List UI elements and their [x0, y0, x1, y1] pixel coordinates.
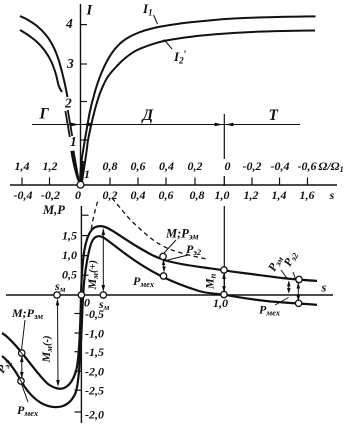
svg-text:0,8: 0,8	[103, 159, 118, 173]
svg-text:Д: Д	[141, 107, 155, 124]
wedge where right-branch curves merge near origin	[80, 161, 84, 184]
curve I1 left branch	[20, 16, 68, 97]
svg-text:0,6: 0,6	[131, 159, 146, 173]
I axis tick 2	[81, 101, 88, 103]
svg-text:0,2: 0,2	[188, 159, 203, 173]
dashed curve P_э2 right branch	[112, 198, 207, 259]
leader P_мех left	[22, 384, 29, 402]
svg-text:0,6: 0,6	[159, 188, 174, 202]
svg-text:-0,2: -0,2	[41, 188, 60, 202]
I axis tick 3	[81, 63, 88, 65]
M tick bottom	[75, 411, 82, 413]
svg-text:1,2: 1,2	[43, 159, 58, 173]
I axis (vertical)	[80, 4, 82, 181]
origin circle	[77, 181, 84, 188]
M tick 0.5	[81, 274, 88, 276]
tick s=1.4	[279, 178, 281, 186]
tick s=0.8	[194, 178, 196, 186]
dimension arrow P_эм right	[287, 281, 291, 294]
tick s=0.4	[137, 178, 139, 186]
svg-text:-0,4: -0,4	[14, 188, 33, 202]
dimension arrow M_м(+)	[102, 228, 106, 292]
arrowhead right at s=1 (Д end)	[215, 123, 223, 127]
svg-text:-1,5: -1,5	[85, 345, 104, 359]
svg-text:4: 4	[65, 16, 73, 31]
svg-text:-0,4: -0,4	[271, 159, 290, 173]
svg-text:1,4: 1,4	[15, 159, 30, 173]
svg-text:M,P: M,P	[42, 203, 65, 217]
M tick -1.0	[75, 332, 82, 334]
svg-text:Т: Т	[269, 107, 279, 124]
svg-text:1,0: 1,0	[62, 248, 77, 262]
svg-text:1: 1	[70, 134, 77, 149]
leader M;P_эм left	[22, 320, 26, 350]
M tick -2.5	[75, 389, 82, 391]
M,P axis (vertical)	[80, 206, 82, 423]
svg-text:1,5: 1,5	[62, 229, 77, 243]
tick s=-0.4	[21, 178, 23, 186]
leader M;P_эм mid	[164, 240, 176, 253]
svg-text:3: 3	[66, 56, 74, 71]
svg-text:-2,5: -2,5	[85, 384, 104, 398]
svg-text:-0,2: -0,2	[243, 159, 262, 173]
curve I2' left branch	[20, 30, 62, 92]
svg-text:1: 1	[84, 167, 90, 181]
M tick -2.0	[75, 370, 82, 372]
BOTTOM PLOT	[0, 198, 333, 423]
leader P_мех right	[275, 298, 289, 306]
curve I2' right branch	[82, 31, 315, 185]
svg-text:Г: Г	[39, 106, 50, 123]
leader P_эм right	[281, 270, 288, 279]
omega scale row	[15, 159, 344, 181]
circle on upper curve mid	[160, 253, 166, 259]
s=1 vertical line (M_п line)	[223, 206, 225, 294]
dimension arrow P_э2 right	[297, 282, 301, 302]
s scale row	[14, 188, 335, 202]
circle s=1 on axis	[221, 291, 227, 297]
svg-text:s: s	[321, 281, 327, 295]
svg-text:0: 0	[84, 296, 90, 310]
s axis (horizontal)	[10, 184, 337, 186]
svg-text:1,4: 1,4	[272, 188, 287, 202]
tick s=1.2	[251, 178, 253, 186]
svg-text:1,0: 1,0	[213, 296, 228, 310]
svg-text:0,2: 0,2	[103, 188, 118, 202]
circle M_п on upper curve	[221, 267, 227, 273]
tick s=0.6	[165, 178, 167, 186]
svg-text:-2,0: -2,0	[85, 365, 104, 379]
svg-text:0: 0	[225, 159, 231, 173]
svg-text:0,8: 0,8	[190, 188, 205, 202]
svg-text:1,2: 1,2	[244, 188, 259, 202]
dimension arrow P_э2 left	[20, 356, 24, 379]
MIDDLE AXIS	[10, 106, 344, 203]
s axis (horizontal, bottom)	[6, 294, 333, 296]
TOP PLOT	[20, 1, 316, 184]
M tick -0.5	[75, 313, 82, 315]
circle on upper curve right	[296, 276, 302, 282]
I axis tick 1	[81, 139, 88, 141]
region boundary line	[32, 124, 300, 126]
svg-text:2: 2	[64, 96, 72, 111]
arrowhead right at axis (Г end)	[71, 123, 79, 127]
M tick 1.5	[81, 235, 88, 237]
svg-text:-1,0: -1,0	[85, 327, 104, 341]
svg-text:0,4: 0,4	[131, 188, 146, 202]
tick s=1.6	[307, 178, 309, 186]
circle on lower curve right	[295, 300, 301, 306]
leader I2'	[164, 40, 172, 50]
I axis tick 4	[81, 24, 88, 26]
circle on lower curve left	[18, 378, 24, 384]
circle s_m(-) on axis	[54, 292, 60, 298]
svg-text:1,6: 1,6	[300, 188, 315, 202]
arrowhead left at axis (Д start)	[83, 123, 91, 127]
circle on lower curve mid	[160, 273, 166, 279]
tick s=-0.2	[49, 178, 51, 186]
curve I1 left steep slash segment	[68, 110, 72, 136]
arrowhead left at s=1 (Т start)	[226, 123, 234, 127]
svg-text:-0,6: -0,6	[298, 159, 317, 173]
circle on upper curve left	[19, 350, 25, 356]
M axis labels positive	[62, 229, 77, 282]
leader P_э2 right	[293, 272, 297, 283]
leader I1	[154, 15, 158, 24]
wedge where left-branch curves merge near origin	[70, 151, 80, 185]
tick s=0.2	[109, 178, 111, 186]
curve I1 right branch	[80, 16, 316, 183]
dimension arrow M_п	[222, 272, 226, 293]
svg-text:0,5: 0,5	[62, 268, 77, 282]
M tick 1.0	[81, 255, 88, 257]
circle origin bottom	[78, 292, 84, 298]
curve I2' left steep slash segment	[65, 111, 69, 137]
svg-text:-2,0: -2,0	[85, 408, 104, 422]
svg-text:0,4: 0,4	[159, 159, 174, 173]
leader crossing upper left circle	[18, 348, 27, 361]
svg-text:s: s	[329, 188, 335, 202]
leader P_э2 mid with arrow	[162, 255, 188, 273]
svg-text:0: 0	[75, 188, 81, 202]
s=1 vertical line tick	[223, 176, 225, 186]
leader crossing lower left circle	[17, 374, 28, 393]
s=1 vertical line upper	[223, 114, 225, 159]
curve M;P_эм (upper)	[2, 226, 317, 389]
curve P_мех (lower)	[2, 236, 317, 407]
dashed curve P_э2	[91, 200, 98, 230]
svg-text:1,0: 1,0	[215, 188, 230, 202]
M tick 2.0	[81, 214, 88, 216]
circle s_m(+) on axis	[100, 292, 106, 298]
M axis labels negative	[85, 307, 104, 422]
dimension arrow M_м(-)	[56, 299, 60, 388]
M tick -1.5	[75, 351, 82, 353]
